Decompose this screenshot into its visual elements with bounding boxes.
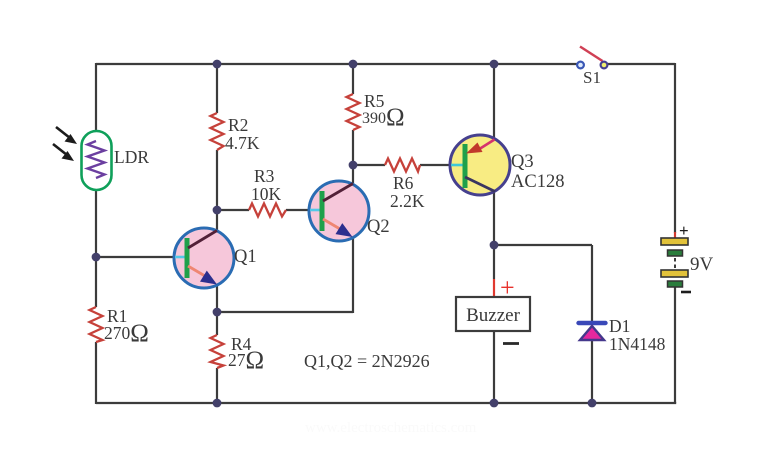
wire left rail upper	[95, 63, 97, 142]
LDR light arrow 2	[53, 144, 74, 161]
wire top rail right	[604, 63, 675, 65]
svg-text:270Ω: 270Ω	[104, 320, 149, 347]
wire buzzer red lead	[493, 279, 495, 297]
resistor R3	[249, 204, 286, 217]
svg-text:27Ω: 27Ω	[228, 347, 264, 374]
svg-text:S1: S1	[583, 68, 601, 87]
transistor Q3	[450, 135, 510, 195]
wire left rail lower	[96, 342, 676, 404]
wire left rail middle	[95, 178, 97, 307]
svg-text:R6: R6	[393, 173, 414, 193]
svg-text:www.electroschematics.com: www.electroschematics.com	[305, 420, 477, 436]
svg-text:R2: R2	[228, 115, 248, 135]
svg-text:1N4148: 1N4148	[609, 334, 666, 354]
node buzzer-diode tap	[490, 241, 499, 250]
wire battery red tick	[674, 232, 676, 238]
svg-text:Q1: Q1	[234, 247, 257, 267]
resistor R1	[90, 307, 103, 342]
wire Q3 collector up x=494	[493, 64, 495, 140]
LDR body	[82, 131, 112, 190]
LDR zigzag	[88, 141, 105, 178]
wire R3 branch	[217, 209, 310, 211]
wire R5 branch x=353	[352, 64, 354, 185]
resistor R4	[211, 335, 224, 368]
svg-text:Buzzer: Buzzer	[466, 305, 520, 326]
wire top rail left	[96, 63, 580, 65]
wire Q3 emitter down	[493, 191, 495, 279]
node R3 tap	[213, 206, 222, 215]
wire Q2 emitter return	[217, 237, 353, 313]
wire buzzer bottom lead	[493, 331, 495, 403]
svg-text:2.2K: 2.2K	[390, 191, 425, 211]
resistor R5	[347, 94, 360, 130]
node top rail at R2	[213, 60, 222, 69]
wire right rail upper	[674, 63, 676, 233]
diode D1	[579, 323, 606, 340]
wire D1 branch	[494, 245, 592, 403]
svg-text:10K: 10K	[251, 184, 282, 204]
transistor Q1	[174, 228, 234, 288]
svg-text:9V: 9V	[690, 254, 714, 275]
battery B1	[661, 221, 691, 292]
wire R2 branch x=217	[216, 64, 218, 231]
node R4 top	[213, 308, 222, 317]
resistor R6	[385, 159, 420, 172]
svg-text:Q3: Q3	[511, 152, 534, 172]
node bottom rail at R4	[213, 399, 222, 408]
wire Q1 base	[96, 256, 175, 258]
buzzer	[456, 273, 530, 344]
svg-text:AC128: AC128	[511, 172, 564, 192]
svg-text:R3: R3	[254, 166, 275, 186]
node bottom rail at buzzer	[490, 399, 499, 408]
node Q1 base tap	[92, 253, 101, 262]
node bottom rail at D1	[588, 399, 597, 408]
transistor Q2	[309, 181, 369, 241]
node top rail at Q3	[490, 60, 499, 69]
svg-text:+: +	[679, 221, 689, 240]
wire Q1 emitter down	[216, 284, 218, 312]
svg-text:Q1,Q2 = 2N2926: Q1,Q2 = 2N2926	[304, 351, 430, 371]
svg-text:4.7K: 4.7K	[225, 133, 260, 153]
node R6 tap	[349, 161, 358, 170]
svg-text:R5: R5	[364, 91, 385, 111]
svg-text:Q2: Q2	[367, 217, 390, 237]
wire R6 branch	[353, 164, 451, 166]
wire R4 leads	[216, 312, 218, 403]
LDR light arrow 1	[56, 127, 77, 144]
switch S1	[577, 47, 607, 69]
wire right rail lower	[674, 287, 676, 403]
svg-text:LDR: LDR	[114, 147, 149, 167]
svg-text:D1: D1	[609, 316, 630, 336]
resistor R2	[211, 113, 224, 150]
svg-text:+: +	[500, 273, 515, 302]
node top rail at R5	[349, 60, 358, 69]
